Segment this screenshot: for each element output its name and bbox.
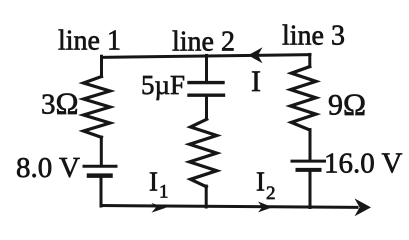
- svg-text:1: 1: [159, 182, 169, 203]
- svg-text:I: I: [149, 166, 158, 196]
- wire below battery B2: [309, 172, 312, 208]
- wire between R3 and battery B2: [309, 130, 312, 160]
- arrowhead current I1 (points right on bottom wire): [152, 203, 167, 213]
- arrowhead current I (points left on top wire): [248, 47, 263, 63]
- svg-text:8.0 V: 8.0 V: [16, 152, 80, 184]
- wire below battery B1: [100, 177, 103, 206]
- svg-text:9Ω: 9Ω: [328, 87, 366, 122]
- svg-text:16.0 V: 16.0 V: [324, 148, 402, 180]
- battery B2 short plate (16.0 V -): [298, 168, 320, 172]
- resistor R1 3-ohm zigzag: [84, 77, 111, 138]
- svg-text:3Ω: 3Ω: [41, 86, 79, 121]
- svg-text:line 3: line 3: [282, 21, 345, 52]
- wire bottom horizontal: [101, 206, 357, 208]
- svg-text:I: I: [256, 166, 265, 196]
- capacitor C1 top plate (5uF): [189, 81, 223, 84]
- wire between C1 and R2: [205, 97, 208, 119]
- wire between R1 and battery B1: [100, 137, 103, 165]
- wire left branch top stub: [100, 56, 103, 76]
- arrowhead bottom wire output: [355, 198, 372, 216]
- resistor R3 9-ohm zigzag: [291, 67, 317, 130]
- svg-text:I: I: [251, 65, 261, 98]
- wire top horizontal (line nodes): [102, 55, 311, 58]
- arrowhead current I2 (points right on bottom wire): [258, 202, 273, 213]
- wire right branch top stub: [308, 54, 311, 66]
- svg-text:2: 2: [266, 183, 276, 204]
- svg-text:line 2: line 2: [172, 27, 235, 58]
- wire middle branch top stub: [205, 55, 208, 81]
- capacitor C1 bottom plate: [189, 93, 224, 96]
- svg-text:line 1: line 1: [58, 26, 121, 57]
- svg-text:5µF: 5µF: [141, 70, 185, 100]
- resistor R2 middle zigzag: [190, 119, 217, 187]
- battery B1 short plate (8.0 V -): [89, 173, 111, 178]
- battery B2 long plate (16.0 V +): [292, 160, 325, 163]
- wire below R2 to bottom node: [205, 186, 208, 207]
- battery B1 long plate (8.0 V +): [84, 165, 116, 168]
